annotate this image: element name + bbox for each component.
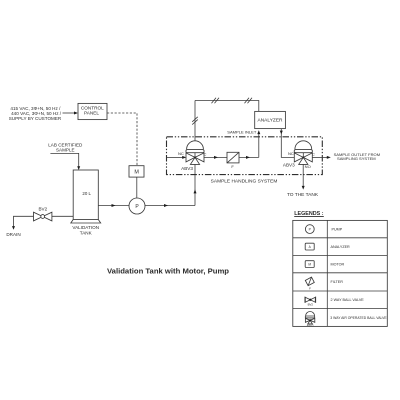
svg-text:ABV3: ABV3 xyxy=(181,166,193,171)
control panel xyxy=(78,103,107,119)
wire ABV3 to sample outlet xyxy=(312,156,331,159)
svg-text:SAMPLE HANDLING SYSTEM: SAMPLE HANDLING SYSTEM xyxy=(211,179,278,185)
svg-text:NO: NO xyxy=(305,164,311,169)
legend table frame xyxy=(293,220,388,326)
wire analyzer to ABV3 right xyxy=(280,129,295,158)
svg-text:ANALYZER: ANALYZER xyxy=(258,117,284,123)
legend 3-way air operated ball valve symbol xyxy=(305,312,315,328)
pump P1 xyxy=(129,198,145,214)
svg-text:BV2: BV2 xyxy=(38,206,47,211)
control signal wire (dashed) control panel to motor xyxy=(107,113,137,166)
filter F xyxy=(227,152,239,169)
stub wire into ABV3 left port xyxy=(167,156,187,159)
legend filter symbol xyxy=(305,277,314,286)
svg-text:PANEL: PANEL xyxy=(84,111,99,116)
wire ABV3 to tank return xyxy=(302,164,305,189)
svg-text:M: M xyxy=(308,263,311,267)
wire valve to drain xyxy=(12,216,34,230)
svg-text:PUMP: PUMP xyxy=(332,227,343,231)
legend pump symbol xyxy=(305,225,314,234)
3-way air operated ball valve ABV3 (right) xyxy=(283,141,315,169)
svg-text:C: C xyxy=(204,151,207,156)
legend 2-way ball valve symbol xyxy=(305,297,316,307)
svg-text:MOTOR: MOTOR xyxy=(331,263,345,267)
svg-text:3 WAY AIR OPERATED BALL VALVE: 3 WAY AIR OPERATED BALL VALVE xyxy=(330,316,387,320)
svg-text:TO THE TANK: TO THE TANK xyxy=(287,192,319,198)
svg-text:NC: NC xyxy=(178,151,184,156)
svg-text:SAMPLE: SAMPLE xyxy=(56,147,75,152)
power supply note text xyxy=(9,106,62,121)
3-way air operated ball valve ABV3 (left) xyxy=(178,141,207,171)
line break marks riser xyxy=(192,117,198,125)
svg-text:F: F xyxy=(309,287,311,291)
legend motor symbol xyxy=(305,261,314,268)
lab certified sample note xyxy=(48,142,83,152)
wire riser valve to overhead line xyxy=(194,101,196,141)
svg-text:BV2: BV2 xyxy=(308,303,314,307)
wire tank to drain valve xyxy=(52,215,73,217)
wire tank to pump xyxy=(98,204,129,207)
svg-text:FILTER: FILTER xyxy=(331,280,344,284)
svg-text:SUPPLY BY CUSTOMER: SUPPLY BY CUSTOMER xyxy=(9,116,62,121)
wire supply to control panel xyxy=(63,112,79,115)
svg-text:20 L: 20 L xyxy=(82,191,91,196)
svg-text:DRAIN: DRAIN xyxy=(6,232,20,237)
wire sample inlet to tank xyxy=(50,153,80,170)
sample outlet label xyxy=(334,152,381,161)
svg-text:ANALYZER: ANALYZER xyxy=(331,245,351,249)
line break marks overhead xyxy=(212,98,253,103)
wire filter to analyzer xyxy=(239,130,260,159)
wire pump to sampling valve xyxy=(145,164,197,207)
sample handling system boundary xyxy=(167,137,323,175)
tank label xyxy=(72,225,99,236)
legends title xyxy=(294,211,324,217)
overhead sample line to analyzer xyxy=(195,101,259,112)
motor M1 xyxy=(129,166,144,177)
svg-text:SAMPLING SYSTEM: SAMPLING SYSTEM xyxy=(337,156,376,161)
validation tank T1 xyxy=(71,170,101,223)
svg-text:ABV3: ABV3 xyxy=(307,323,314,327)
legend analyzer symbol xyxy=(305,243,314,250)
ball valve BV2 xyxy=(34,206,52,221)
svg-text:ABV3: ABV3 xyxy=(283,162,295,167)
svg-text:Validation Tank with Motor, Pu: Validation Tank with Motor, Pump xyxy=(107,266,229,275)
svg-text:C: C xyxy=(312,151,315,156)
analyzer A1 xyxy=(255,111,286,128)
svg-text:SAMPLE INLET: SAMPLE INLET xyxy=(227,130,257,135)
svg-text:NC: NC xyxy=(288,151,294,156)
svg-text:M: M xyxy=(134,170,139,176)
wire ABV3 to filter xyxy=(204,156,227,159)
svg-text:TANK: TANK xyxy=(80,231,93,236)
svg-text:2 WAY BALL VALVE: 2 WAY BALL VALVE xyxy=(331,298,365,302)
wire motor to pump xyxy=(136,177,138,198)
svg-text:VALIDATION: VALIDATION xyxy=(72,225,99,230)
